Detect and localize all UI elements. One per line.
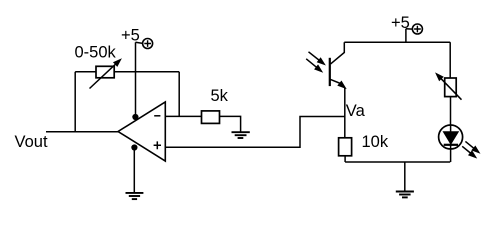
wire 5k resistor to ground [220,116,241,131]
svg-text:Va: Va [346,102,366,120]
wire inverting input to 5k resistor [165,115,201,117]
resistor R2 5k [202,111,220,124]
LED D1 [439,125,463,162]
junction dot op-amp V+ pin [132,114,138,120]
wire top rail down to variable resistor [449,42,451,78]
variable resistor R4 (photoresistor) [436,74,461,100]
svg-text:0-50k: 0-50k [75,44,117,62]
wire op-amp V- pin to ground [133,147,135,192]
phototransistor Q1 [330,42,346,88]
wire top rail [344,41,450,43]
wire 10k to bottom rail [344,156,346,162]
svg-text:Vout: Vout [15,133,48,151]
svg-text:+5: +5 [391,14,410,32]
ground (5k resistor) [232,132,250,138]
power +5 symbol (right) [406,24,423,34]
wire phototransistor emitter down through Va to 10k [344,88,346,138]
light arrow 2 out of LED [462,146,476,157]
wire variable resistor to LED [450,97,452,125]
wire Vout to op-amp output [46,131,118,133]
ground (op-amp) [126,193,144,199]
power +5 symbol (left) [136,39,153,49]
wire feedback top left segment [75,71,96,73]
resistor R3 10k [339,138,352,156]
wire feedback right vertical to inverting input [178,72,180,117]
wire feedback left vertical [74,72,76,132]
op-amp U1 [118,102,165,161]
light arrow 1 into phototransistor [309,52,325,65]
wire non-inverting input to node Va [165,117,344,148]
svg-text:10k: 10k [362,133,389,151]
light arrow 2 into phototransistor [306,59,322,72]
ground (bottom rail) [396,192,414,198]
wire bottom rail [345,161,450,163]
wire +5 down to op-amp V+ pin [135,42,137,116]
wire feedback top right segment [114,71,179,73]
svg-text:+5: +5 [121,27,140,45]
light arrow 1 out of LED [465,141,479,152]
wire bottom rail ground stem [404,162,406,191]
potentiometer R1 0-50k [90,59,121,88]
svg-text:5k: 5k [211,87,229,105]
junction dot op-amp V- pin [131,144,137,150]
wire +5 stub to top rail [405,29,407,43]
